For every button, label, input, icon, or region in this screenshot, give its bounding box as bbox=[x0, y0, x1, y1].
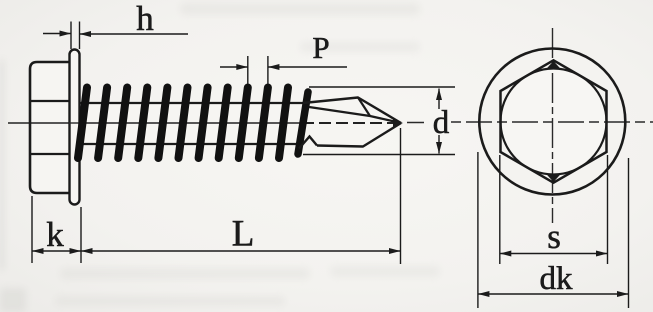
dimension k line with outward arrows bbox=[32, 250, 81, 252]
dimension L line with outward arrows bbox=[81, 250, 401, 252]
washer flange bar bbox=[70, 50, 80, 205]
head facet line lower bbox=[30, 153, 70, 155]
dimension P leader left with arrow bbox=[220, 66, 248, 68]
dimension s extension lines bbox=[499, 155, 501, 264]
dimension d vertical line with arrows bbox=[438, 89, 440, 110]
hex head (side view) bbox=[30, 62, 79, 193]
hexagon vertex ink (bottom) bbox=[546, 174, 561, 183]
axis centerline over washer bbox=[69, 122, 80, 124]
dimension dk line with outward arrows bbox=[478, 293, 629, 295]
drill point flute cut edge bbox=[358, 98, 370, 117]
svg-text:h: h bbox=[136, 0, 154, 38]
drill point notch bbox=[299, 137, 317, 149]
dimension h extension lines bbox=[70, 22, 72, 50]
head facet line upper bbox=[30, 100, 70, 102]
dimension d extension line bottom bbox=[303, 154, 455, 156]
hexagon vertex ink (top) bbox=[546, 61, 561, 70]
shaft root line top bbox=[79, 102, 303, 104]
dimension P leader right with arrow bbox=[268, 66, 347, 68]
vertical centerline of circle view bbox=[552, 28, 554, 223]
axis centerline (left view) bbox=[8, 122, 302, 124]
dimension d extension line top bbox=[309, 86, 455, 88]
paper bleed-through smudges bbox=[0, 3, 440, 312]
axis centerline dash right of tip bbox=[407, 122, 424, 124]
axis centerline dashed through drill point bbox=[302, 122, 400, 124]
drill point top edge bbox=[303, 98, 401, 124]
last partial thread bar bbox=[298, 92, 308, 154]
light interior fills bbox=[30, 49, 625, 195]
outer circle (flange) top view bbox=[479, 49, 625, 195]
svg-text:s: s bbox=[547, 217, 561, 256]
dimension P extension lines bbox=[247, 56, 249, 84]
svg-text:L: L bbox=[232, 214, 255, 255]
svg-text:d: d bbox=[433, 105, 450, 141]
hexagon top view bbox=[501, 60, 607, 182]
dimension h leader left with arrow bbox=[43, 33, 71, 35]
thread bars bbox=[78, 88, 288, 159]
svg-text:P: P bbox=[312, 30, 329, 65]
svg-text:dk: dk bbox=[540, 261, 574, 297]
shaft root line bottom bbox=[79, 143, 299, 145]
horizontal centerline through circle view bbox=[451, 121, 653, 123]
drill tip ink blob bbox=[393, 119, 403, 126]
dimension h leader right with arrow bbox=[80, 33, 189, 35]
dimension s line with outward arrows bbox=[500, 253, 608, 255]
drill point flute mid line bbox=[309, 107, 401, 123]
inscribed chamfer circle bbox=[501, 69, 607, 175]
dimension dk extension lines bbox=[477, 152, 479, 308]
svg-text:k: k bbox=[46, 215, 64, 254]
L extension line (screw tip) bbox=[400, 128, 402, 264]
k extension line (head left face) bbox=[31, 196, 33, 263]
k/L shared extension line (washer face) bbox=[80, 207, 82, 263]
drill point bottom edge bbox=[317, 123, 401, 147]
